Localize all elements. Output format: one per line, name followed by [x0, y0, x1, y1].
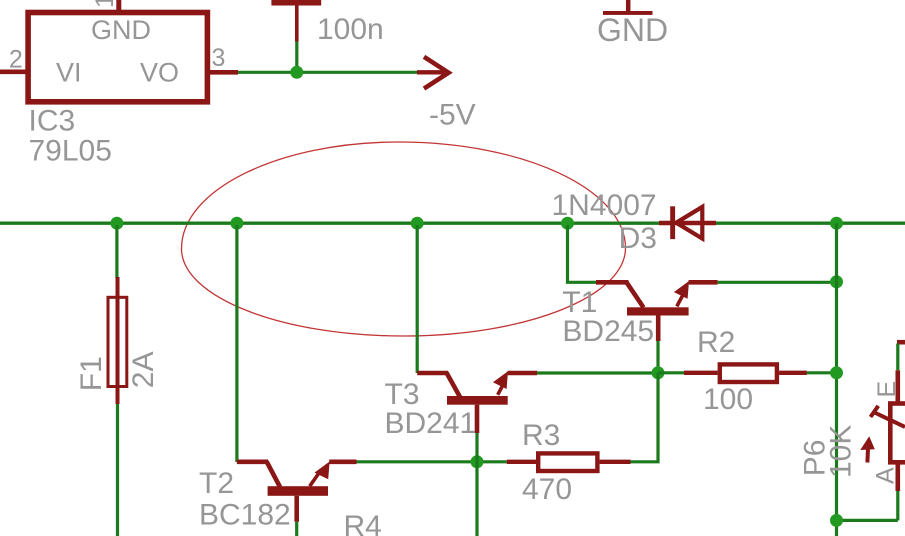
svg-text:T2: T2 — [199, 467, 234, 500]
svg-text:470: 470 — [522, 473, 572, 506]
wire (green) T3 emitter to R2 node — [537, 371, 658, 374]
junction on main wire at right rail — [830, 217, 843, 230]
junction on main wire at T2 branch — [230, 217, 243, 230]
junction T1 emitter / right rail — [830, 275, 843, 288]
wire (green) T1 branch vertical from main wire — [568, 225, 597, 282]
svg-text:VO: VO — [140, 58, 179, 88]
transistor T2 BC182 — [237, 462, 357, 522]
svg-text:F1: F1 — [75, 356, 108, 391]
wire (green) right rail vertical — [835, 223, 838, 536]
potentiometer P6 10K body — [890, 404, 905, 463]
svg-text:BD245: BD245 — [562, 315, 654, 348]
P6 pin A (bottom) — [895, 462, 900, 520]
wire (green) T2 branch vertical — [235, 225, 238, 462]
svg-text:R2: R2 — [697, 326, 735, 359]
svg-text:VI: VI — [56, 58, 82, 88]
P6 wiper arrow — [860, 436, 875, 462]
wire (green) T2 collector down — [295, 522, 298, 536]
wire (green) node down to R3 right bend — [631, 373, 659, 462]
svg-text:79L05: 79L05 — [29, 135, 112, 168]
P6 pin E (top) — [897, 342, 905, 403]
junction R2 / T1 base / T3 emitter — [652, 366, 665, 379]
wire (green) T3 base node down — [475, 433, 478, 536]
svg-text:100n: 100n — [317, 13, 384, 46]
svg-text:E: E — [873, 381, 901, 398]
wire (green) T1 emitter to right rail — [718, 281, 837, 284]
svg-text:100: 100 — [703, 383, 753, 416]
transistor T1 BD245 — [596, 281, 718, 341]
junction at capacitor / -5V net — [290, 66, 303, 79]
highlight ellipse (red annotation) — [182, 142, 626, 336]
capacitor C (100n) bottom plate — [271, 0, 321, 6]
svg-text:-5V: -5V — [429, 98, 476, 131]
wire (green) capacitor to -5V net — [295, 42, 298, 67]
svg-text:A: A — [872, 467, 900, 484]
capacitor C lead (dark red) — [295, 5, 299, 42]
svg-text:R4: R4 — [344, 510, 382, 536]
junction R2 right / right rail — [830, 366, 843, 379]
junction on main wire at fuse F1 — [110, 217, 123, 230]
P6 trimmer screw symbol — [871, 406, 905, 427]
junction on main wire at T1 branch — [561, 217, 574, 230]
wire (green) T2 emitter to R3 node — [357, 460, 478, 463]
wire (green) T1 base down to R2 node — [656, 341, 659, 373]
diode D3 pins (dark red wire segment) — [659, 221, 716, 225]
wire (green) bottom connection to right rail — [837, 519, 898, 522]
svg-text:IC3: IC3 — [29, 105, 76, 138]
pin 2 (VI pin of IC3, left) — [0, 70, 26, 75]
svg-text:1: 1 — [91, 0, 119, 8]
transistor T3 BD241 — [417, 371, 537, 433]
resistor R3 — [477, 453, 631, 471]
junction right rail bottom — [830, 514, 843, 527]
svg-text:R3: R3 — [522, 419, 560, 452]
junction on main wire at T3 branch — [411, 217, 424, 230]
svg-text:GND: GND — [91, 15, 151, 45]
wire (green) T3 branch vertical — [416, 225, 419, 373]
svg-text:GND: GND — [597, 12, 668, 48]
pin 3 (VO pin of IC3, right) — [209, 70, 238, 75]
pin 1 (GND pin of IC3, top) — [116, 0, 121, 10]
wire (green) pin3 to junction — [238, 71, 417, 74]
main horizontal wire (green, input rail) — [0, 222, 905, 225]
svg-text:3: 3 — [212, 44, 226, 72]
svg-text:BD241: BD241 — [385, 407, 477, 440]
resistor R2 — [658, 364, 837, 382]
svg-text:D3: D3 — [619, 222, 657, 255]
svg-text:BC182: BC182 — [199, 498, 291, 531]
supply arrow -5V — [417, 57, 449, 89]
svg-text:10K: 10K — [825, 425, 858, 478]
junction R3 left / T3 base / T2 emitter — [471, 455, 484, 468]
svg-text:2: 2 — [9, 46, 23, 74]
svg-text:2A: 2A — [127, 351, 160, 388]
diode D3 1N4007 symbol — [670, 206, 702, 239]
fuse F1 — [108, 225, 127, 536]
ground symbol GND (top middle) — [603, 0, 653, 15]
IC U1 regulator IC3 79L05 box — [28, 13, 207, 102]
